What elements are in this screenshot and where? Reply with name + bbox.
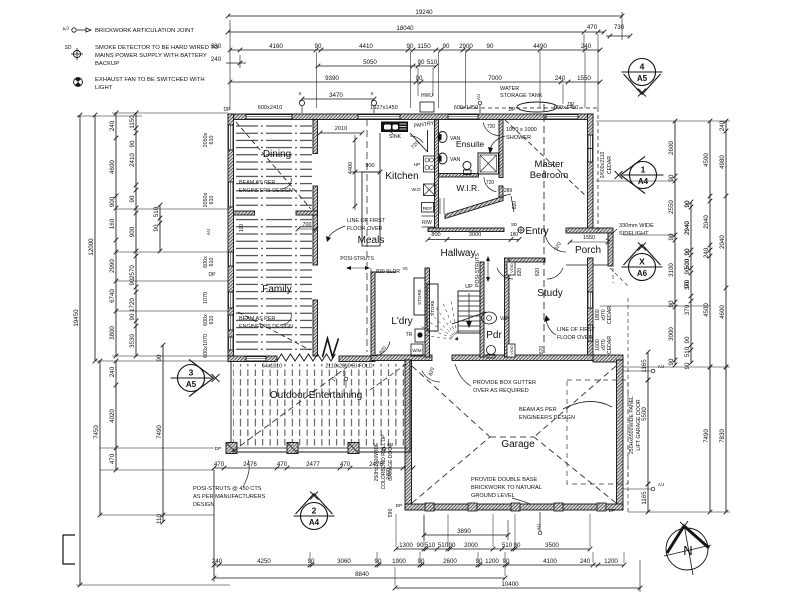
svg-text:V5: V5 (402, 266, 408, 271)
dim right 7490 lower (709, 367, 711, 512)
svg-text:BEAM AS PER: BEAM AS PER (519, 407, 557, 413)
svg-text:PROVIDE BOX GUTTER: PROVIDE BOX GUTTER (473, 380, 536, 386)
svg-text:N: N (683, 543, 692, 558)
svg-text:90: 90 (668, 358, 675, 365)
svg-text:90: 90 (129, 313, 136, 320)
study door arc left (497, 268, 513, 279)
svg-text:4100: 4100 (543, 558, 557, 565)
svg-text:HWU: HWU (421, 93, 433, 99)
entry sd symbol (518, 227, 524, 233)
window family south 594x1810 (246, 356, 266, 362)
dim right chain x691 (690, 202, 692, 363)
svg-text:90: 90 (308, 558, 315, 565)
wall garage top right (593, 355, 623, 362)
svg-text:90: 90 (668, 300, 675, 307)
svg-text:4400: 4400 (348, 162, 354, 174)
svg-text:1150: 1150 (129, 115, 136, 129)
svg-text:W.D: W.D (411, 187, 421, 193)
master bedroom dashed ceiling diagonal (505, 120, 586, 196)
svg-text:DP: DP (396, 503, 403, 509)
svg-text:Kitchen: Kitchen (385, 171, 418, 182)
svg-text:DP: DP (209, 272, 217, 278)
svg-text:1165: 1165 (641, 359, 648, 373)
svg-text:470: 470 (109, 453, 116, 464)
wall wir-master jog (499, 186, 503, 198)
ldry door arc 820 (374, 341, 390, 356)
svg-text:SD: SD (511, 222, 517, 227)
svg-text:Dining: Dining (263, 149, 291, 160)
svg-text:240: 240 (581, 43, 592, 50)
svg-text:470: 470 (340, 461, 351, 468)
svg-text:18040: 18040 (396, 25, 414, 32)
wall family south right segment (339, 356, 375, 362)
svg-text:590: 590 (388, 509, 394, 518)
dim bottom row 510s (396, 548, 590, 550)
svg-text:8840: 8840 (355, 571, 369, 578)
wall study north (509, 258, 545, 262)
svg-text:1027x1450: 1027x1450 (370, 105, 398, 111)
svg-text:W/M: W/M (412, 348, 421, 353)
svg-text:240: 240 (580, 558, 591, 565)
svg-text:3500: 3500 (545, 542, 559, 549)
svg-text:90: 90 (668, 233, 675, 240)
window left wall 2050 upper (228, 125, 234, 150)
svg-text:Hallway: Hallway (440, 248, 475, 259)
svg-text:610: 610 (209, 316, 215, 325)
ldry WM unit (411, 344, 423, 356)
svg-text:A5: A5 (186, 380, 197, 389)
window master east (588, 135, 594, 162)
svg-text:DP: DP (224, 107, 232, 113)
svg-text:250Hx2400WIDE: 250Hx2400WIDE (374, 442, 380, 481)
right extension horizontals (623, 234, 675, 236)
svg-text:2: 2 (312, 506, 317, 516)
svg-text:700: 700 (303, 222, 312, 228)
svg-text:4410: 4410 (359, 43, 373, 50)
first floor dashed line vertical kitchen (366, 119, 368, 352)
svg-text:3100: 3100 (668, 263, 675, 277)
wall ldry-store (425, 268, 430, 357)
svg-text:VAN: VAN (450, 136, 461, 142)
porch wall right (608, 233, 613, 266)
svg-text:90: 90 (684, 248, 691, 255)
svg-text:2110x2890 BI-FOLD: 2110x2890 BI-FOLD (325, 364, 372, 370)
svg-text:1900: 1900 (392, 558, 406, 565)
svg-text:A6: A6 (637, 269, 648, 278)
wall master east (588, 114, 594, 232)
svg-text:90: 90 (375, 558, 382, 565)
svg-text:SINK: SINK (389, 134, 402, 140)
svg-text:90: 90 (417, 542, 424, 549)
ensuite vanity basin 1 (438, 132, 447, 143)
svg-text:90: 90 (418, 558, 425, 565)
svg-text:12000: 12000 (88, 238, 95, 256)
svg-text:90: 90 (668, 174, 675, 181)
svg-text:90: 90 (129, 140, 136, 147)
svg-text:1200: 1200 (485, 558, 499, 565)
dim bottom main row (214, 564, 624, 566)
window study east a (588, 292, 594, 308)
porch wall top (566, 228, 613, 233)
svg-text:2600: 2600 (668, 141, 675, 155)
garage valley dashed to ldry (370, 360, 412, 390)
svg-text:A4: A4 (309, 518, 320, 527)
svg-text:510: 510 (427, 59, 438, 66)
window left wall 600 a (228, 252, 234, 266)
wall wir south angled (445, 197, 503, 219)
svg-text:CEDAR: CEDAR (607, 306, 613, 324)
svg-text:ENGINEERS DESIGN: ENGINEERS DESIGN (519, 415, 575, 421)
big N glyph (323, 339, 339, 358)
svg-text:2477: 2477 (306, 461, 320, 468)
wall ensuite south (439, 174, 479, 178)
svg-text:Outdoor Entertaining: Outdoor Entertaining (270, 390, 362, 401)
svg-text:Garage: Garage (501, 439, 535, 450)
svg-text:4980: 4980 (719, 155, 726, 169)
svg-text:A/J: A/J (206, 229, 211, 235)
wall exterior left (228, 114, 234, 362)
svg-text:900: 900 (109, 196, 116, 207)
bifold zigzag door (277, 354, 336, 361)
svg-text:VOID: VOID (509, 263, 514, 273)
svg-text:600x: 600x (203, 346, 209, 358)
store closet 1 (414, 278, 425, 315)
svg-text:470: 470 (277, 461, 288, 468)
svg-text:Porch: Porch (575, 245, 601, 256)
svg-text:510: 510 (153, 206, 160, 217)
right extension lines (596, 120, 730, 122)
svg-text:1150: 1150 (417, 43, 431, 50)
svg-text:2000: 2000 (464, 542, 478, 549)
svg-text:90: 90 (156, 354, 163, 361)
svg-text:A/J: A/J (476, 94, 481, 100)
svg-text:100: 100 (239, 224, 245, 233)
dim left chain x116 upper (115, 113, 117, 356)
svg-text:Study: Study (537, 288, 563, 299)
wall kitchen-ensuite divider (435, 120, 439, 229)
svg-text:BEAM AS PER: BEAM AS PER (239, 316, 275, 322)
svg-text:A/J: A/J (658, 364, 664, 369)
left extension horizontals (116, 208, 228, 210)
svg-text:3890: 3890 (457, 528, 471, 535)
svg-text:820: 820 (535, 268, 541, 277)
svg-text:2040: 2040 (703, 215, 710, 229)
svg-text:TR: TR (406, 332, 413, 338)
svg-text:LINE OF FIRST: LINE OF FIRST (557, 327, 596, 333)
svg-text:610: 610 (209, 258, 215, 267)
section marker 4/A5 (629, 59, 656, 86)
svg-text:COLORBOND ROLL UP: COLORBOND ROLL UP (381, 434, 387, 489)
svg-text:SD: SD (65, 45, 72, 51)
svg-text:5050: 5050 (363, 59, 377, 66)
stairs break line (452, 312, 486, 324)
wall dining east upper (313, 120, 318, 154)
svg-text:LIFT GARAGE DOOR: LIFT GARAGE DOOR (636, 399, 642, 450)
svg-text:A/J: A/J (342, 371, 347, 377)
svg-text:R/W: R/W (422, 220, 432, 226)
svg-text:FLOOR OVER: FLOOR OVER (347, 226, 382, 232)
svg-text:AS PER MANUFACTURERS: AS PER MANUFACTURERS (193, 494, 266, 500)
svg-text:2/600x2110: 2/600x2110 (600, 152, 606, 179)
svg-text:3: 3 (189, 368, 194, 378)
svg-text:2940: 2940 (684, 221, 691, 235)
svg-text:180: 180 (510, 232, 519, 238)
dim top main chain (230, 49, 600, 51)
dim left chain x116 lower (115, 361, 117, 470)
svg-text:510: 510 (502, 542, 513, 549)
svg-text:PROVIDE DOUBLE BASE: PROVIDE DOUBLE BASE (471, 477, 537, 483)
svg-text:POSI-STRUTS @ 450 CTS: POSI-STRUTS @ 450 CTS (193, 486, 262, 492)
window top wall 600x1450 right (546, 114, 578, 120)
svg-text:X: X (639, 257, 645, 267)
dining dashed beam diagonal (236, 122, 311, 209)
dim left 7450 (99, 361, 101, 515)
dim top 18040 (228, 31, 598, 33)
wall family east upper (313, 215, 318, 265)
svg-text:730: 730 (614, 24, 625, 31)
garage wall bottom (405, 504, 623, 510)
svg-text:W.I.R.: W.I.R. (456, 183, 479, 193)
section marker X/A6 (629, 254, 656, 281)
svg-text:4600: 4600 (109, 160, 116, 174)
svg-text:7490: 7490 (703, 429, 710, 443)
svg-text:4160: 4160 (269, 43, 283, 50)
svg-text:2570: 2570 (129, 265, 136, 279)
garage hip roof dashed right lower (534, 437, 616, 503)
svg-text:289: 289 (504, 188, 513, 194)
wall stairs-pdr (480, 262, 484, 357)
svg-text:240: 240 (211, 56, 222, 63)
dim bottom 3890 (424, 534, 508, 536)
svg-text:500: 500 (684, 258, 691, 269)
svg-text:2010: 2010 (335, 126, 347, 132)
section marker 2/A4 (301, 503, 328, 530)
wall study east (588, 258, 594, 360)
svg-text:720: 720 (487, 124, 496, 130)
wall exterior top (228, 114, 593, 120)
svg-text:90: 90 (153, 224, 160, 231)
wall entry-study (505, 258, 510, 357)
garage dashed inset rectangle (567, 380, 628, 484)
svg-text:240: 240 (109, 120, 116, 131)
window left wall 2050 lower (228, 182, 234, 207)
window top wall 600x2410 (246, 114, 292, 120)
void label lower (507, 344, 515, 357)
svg-text:510: 510 (425, 542, 436, 549)
svg-text:3470: 3470 (329, 92, 343, 99)
svg-text:900: 900 (129, 226, 136, 237)
svg-text:90: 90 (684, 200, 691, 207)
study door arc right (547, 268, 563, 279)
entry door arc (545, 231, 566, 252)
svg-text:ENGINEERS DESIGN: ENGINEERS DESIGN (239, 324, 293, 330)
svg-text:19450: 19450 (73, 309, 80, 327)
svg-text:820: 820 (517, 268, 523, 277)
garage ridge dashed (490, 436, 534, 438)
svg-text:90: 90 (514, 542, 521, 549)
svg-text:DP: DP (215, 446, 222, 452)
kitchen cooktop HP (424, 156, 435, 172)
svg-text:SMOKE DETECTOR TO BE HARD WIRE: SMOKE DETECTOR TO BE HARD WIRED TO (95, 45, 219, 51)
dim left chain x160 short (159, 205, 161, 251)
svg-text:240: 240 (212, 558, 223, 565)
legend exhaust fan symbol (74, 78, 83, 87)
svg-text:90: 90 (407, 43, 414, 50)
svg-text:670: 670 (539, 346, 545, 355)
svg-text:160: 160 (109, 218, 116, 229)
wir robe lines (439, 198, 441, 214)
svg-text:GARAGE DOOR: GARAGE DOOR (388, 443, 394, 481)
svg-text:REF: REF (423, 206, 433, 212)
stairs winders dashed (418, 334, 458, 340)
kitchen bench island (362, 172, 380, 246)
svg-text:470: 470 (587, 24, 598, 31)
family floor joist hatch (236, 218, 312, 354)
kitchen bench front edge (379, 133, 381, 172)
dim left chain x136 (135, 113, 137, 356)
svg-text:4: 4 (640, 62, 645, 72)
dim bottom 8840 (214, 577, 505, 579)
svg-text:UP: UP (465, 284, 473, 290)
svg-text:19240: 19240 (415, 9, 433, 16)
svg-text:3000: 3000 (469, 232, 481, 238)
svg-text:6740: 6740 (109, 289, 116, 303)
left margin bracket (63, 535, 75, 564)
svg-text:90: 90 (129, 195, 136, 202)
wall south laundry-study (371, 355, 432, 361)
svg-text:90: 90 (129, 278, 136, 285)
svg-text:LINE OF FIRST: LINE OF FIRST (347, 218, 386, 224)
pdr vanity (482, 312, 497, 324)
svg-text:CEDAR: CEDAR (607, 336, 613, 354)
svg-text:330: 330 (211, 43, 222, 50)
window left wall 1070 b (228, 337, 234, 350)
svg-text:DP: DP (568, 102, 576, 108)
stairs (458, 291, 480, 333)
svg-text:A/J: A/J (658, 482, 664, 487)
svg-text:2600: 2600 (443, 558, 457, 565)
kitchen appliance WD (424, 184, 436, 196)
ensuite toilet (463, 162, 471, 170)
svg-text:240: 240 (109, 366, 116, 377)
outdoor entertaining edges (230, 362, 232, 453)
svg-text:610: 610 (209, 136, 215, 145)
svg-text:WATER: WATER (500, 86, 519, 92)
svg-text:1200: 1200 (604, 558, 618, 565)
svg-text:4020: 4020 (109, 409, 116, 423)
wall ldry west (371, 272, 375, 356)
svg-text:VOID: VOID (509, 345, 514, 355)
svg-text:EXHAUST FAN TO BE SWITCHED WIT: EXHAUST FAN TO BE SWITCHED WITH (95, 77, 205, 83)
svg-text:SHOWER: SHOWER (506, 135, 531, 141)
garage wall right (617, 360, 624, 510)
top extension verticals (316, 52, 318, 108)
svg-text:3530: 3530 (129, 334, 136, 348)
svg-text:DP: DP (609, 508, 616, 514)
svg-text:1: 1 (641, 165, 646, 175)
svg-text:HP: HP (414, 162, 421, 168)
svg-text:S: S (370, 91, 373, 96)
svg-text:7000: 7000 (488, 75, 502, 82)
ensuite shower (478, 153, 499, 174)
svg-text:90: 90 (684, 362, 691, 369)
dim left overall 19450 (79, 115, 81, 585)
svg-text:90: 90 (416, 75, 423, 82)
svg-text:600x2410: 600x2410 (258, 105, 283, 111)
svg-text:BEAM AS PER: BEAM AS PER (239, 180, 275, 186)
svg-text:4500: 4500 (703, 303, 710, 317)
svg-text:330mm WIDE: 330mm WIDE (619, 223, 654, 229)
outdoor posts (226, 443, 237, 454)
wall family east lower (313, 300, 318, 356)
svg-text:1720: 1720 (129, 298, 136, 312)
svg-text:7490: 7490 (156, 425, 163, 439)
svg-text:BRICKWORK ARTICULATION JOINT: BRICKWORK ARTICULATION JOINT (95, 28, 194, 34)
svg-text:Bedroom: Bedroom (530, 170, 569, 181)
svg-text:ENGINEERS DESIGN: ENGINEERS DESIGN (239, 188, 293, 194)
dim right chain x710 (709, 121, 711, 367)
svg-text:SIDELIGHT: SIDELIGHT (619, 231, 649, 237)
svg-text:3000: 3000 (668, 327, 675, 341)
dim bottom 10400 (395, 587, 640, 589)
svg-text:2900: 2900 (459, 43, 473, 50)
dim right chain x726 (725, 121, 727, 367)
garage bottom piers (425, 503, 434, 511)
ensuite door arc 720 (483, 122, 499, 135)
bottom extension verticals (395, 514, 397, 547)
left extension lines (76, 584, 230, 586)
dim right 1165 5500 1165 (647, 352, 649, 380)
svg-text:470: 470 (214, 461, 225, 468)
dim left 12000 (94, 115, 96, 361)
svg-text:1550: 1550 (577, 75, 591, 82)
dining floor joist hatch (236, 121, 312, 209)
dim top 3470 posistrut markers (302, 98, 374, 100)
svg-text:240: 240 (555, 75, 566, 82)
svg-text:L'dry: L'dry (391, 316, 412, 327)
svg-text:POSI-STRUTS: POSI-STRUTS (475, 253, 481, 287)
svg-text:90: 90 (503, 558, 510, 565)
window top wall 1027x1450 (358, 114, 400, 120)
svg-text:720: 720 (486, 180, 495, 186)
svg-text:240: 240 (703, 247, 710, 258)
kitchen sink bench unit (381, 122, 408, 133)
svg-text:510: 510 (438, 542, 449, 549)
void label upper (507, 262, 515, 275)
svg-text:90: 90 (487, 43, 494, 50)
svg-text:A5: A5 (637, 74, 648, 83)
svg-text:LIGHT: LIGHT (95, 85, 113, 91)
north compass (666, 528, 708, 570)
svg-text:S: S (298, 91, 301, 96)
eave dashed master right (597, 108, 599, 230)
svg-text:1165: 1165 (641, 491, 648, 505)
window left wall 1070 a (228, 292, 234, 308)
svg-text:90: 90 (449, 542, 456, 549)
svg-text:2040: 2040 (719, 235, 726, 249)
svg-text:90: 90 (684, 336, 691, 343)
wall family south left segment (228, 356, 277, 362)
garage hip roof dashed right upper (534, 366, 616, 437)
svg-text:VAN: VAN (450, 157, 461, 163)
garage hip roof dashed left upper (412, 366, 490, 437)
svg-text:90: 90 (418, 59, 425, 66)
eave dashed porch corner diagonal (610, 268, 628, 286)
svg-text:240: 240 (719, 120, 726, 131)
window top wall 600x1450 (448, 114, 478, 120)
svg-text:STORE: STORE (417, 289, 422, 305)
svg-text:2550: 2550 (668, 200, 675, 214)
